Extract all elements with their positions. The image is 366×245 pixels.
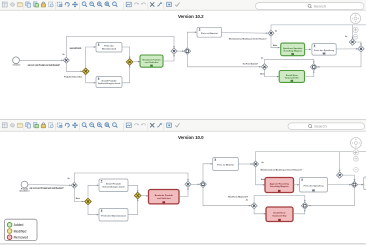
- zoom minus button (top): [353, 34, 358, 39]
- gateway G8 exclusive: [261, 64, 267, 70]
- gateway G5c modified yellow: [134, 192, 141, 199]
- wire TA to G5c: [128, 185, 138, 192]
- wire G2 up to task T1: [86, 47, 96, 68]
- wire rail drop to G6: [352, 25, 354, 39]
- gateway G1b exclusive: [71, 182, 77, 188]
- zoom minus button (bottom): [353, 156, 358, 161]
- svg-text:Vorbestellungen durch: Vorbestellungen durch: [98, 82, 121, 85]
- wire RA1 to G3b: [179, 188, 188, 197]
- wire G6b to G7b: [343, 175, 355, 181]
- wire G3 to G4: [177, 50, 184, 52]
- toolbar bottom panel: [0, 120, 366, 132]
- svg-text:Prüfe den: Prüfe den: [104, 45, 114, 48]
- wire G5 to green GA1: [133, 61, 140, 63]
- task GA1 added green: [140, 55, 163, 67]
- start event (bottom): [21, 181, 28, 188]
- wire T2 to G5: [122, 65, 130, 83]
- wire G4b down to G8b: [203, 188, 251, 206]
- wire PM to G5d: [238, 163, 252, 165]
- wire T4b to G7b: [328, 184, 352, 186]
- wire G1b up rail to G3b: [74, 173, 188, 182]
- svg-text:Hat Preis Material?: Hat Preis Material?: [243, 62, 259, 65]
- svg-text:Bearbeite Produkt: Bearbeite Produkt: [143, 59, 161, 62]
- task T4 Preis des Speicherg: [312, 44, 336, 56]
- wire G4b up to task PM: [203, 164, 213, 181]
- wire G2b up to taskA: [88, 185, 99, 198]
- svg-text:Produkt Vorbestellen: Produkt Vorbestellen: [64, 75, 83, 78]
- wire G8b down to red RA3: [254, 209, 266, 214]
- wire TB to G5c: [128, 199, 138, 215]
- svg-text:Version 10.0: Version 10.0: [178, 135, 204, 140]
- wire start to G1: [19, 59, 63, 61]
- svg-text:und Geld dort: und Geld dort: [157, 197, 171, 200]
- svg-text:Search: Search: [314, 124, 327, 129]
- legend added (green): [7, 223, 12, 228]
- wire rail drop to G6b: [339, 152, 341, 172]
- svg-text:Prüfe den Warenbestand: Prüfe den Warenbestand: [101, 214, 126, 217]
- svg-text:Vorschlag Magazin: Vorschlag Magazin: [283, 49, 302, 52]
- gateway G5d exclusive: [253, 161, 259, 167]
- search box top: [256, 3, 365, 10]
- task TA: [99, 179, 128, 192]
- svg-text:Erstell Neue: Erstell Neue: [286, 74, 299, 77]
- svg-text:Speichere Speicher: Speichere Speicher: [283, 47, 302, 50]
- task T3 Preis ist Material: [197, 27, 222, 37]
- svg-text:Vorbestellungen durch: Vorbestellungen durch: [102, 185, 125, 188]
- svg-text:Nein: Nein: [260, 74, 265, 76]
- svg-text:Nein: Nein: [76, 198, 81, 200]
- zoom plus button (bottom): [353, 150, 358, 155]
- svg-text:wie hoch sind Produkt und Geld: wie hoch sind Produkt und Geld Bestand?: [30, 187, 64, 190]
- wire G1 down to G2: [66, 63, 82, 71]
- svg-text:ausreichend: ausreichend: [70, 48, 82, 50]
- wire GA3 to G9: [305, 71, 314, 77]
- start event (top): [13, 57, 20, 64]
- svg-text:Warenbestand: Warenbestand: [102, 47, 117, 50]
- wire G4 down to G8: [187, 54, 261, 66]
- wire G8 down to green GA3: [265, 70, 280, 77]
- svg-text:Approve Recording: Approve Recording: [270, 182, 290, 185]
- task T2: [96, 77, 122, 88]
- gateway G1 exclusive: [63, 57, 69, 63]
- wire RA3 to G9b: [293, 209, 305, 214]
- wire G7b loop down-left to G9b: [308, 188, 354, 206]
- wire RA2 to T4b: [294, 184, 300, 186]
- wire G5d down to red RA2: [256, 167, 265, 185]
- svg-text:Removed: Removed: [14, 236, 29, 240]
- search box bottom: [288, 123, 365, 130]
- gateway G8b exclusive: [251, 203, 257, 209]
- legend removed (red): [7, 235, 12, 240]
- wire T4 to G7: [336, 48, 358, 50]
- gateway G2b modified yellow: [85, 198, 92, 205]
- wire GA1 to G3: [163, 54, 174, 61]
- task GA3 added green: [279, 71, 304, 83]
- task RA1 removed red: [149, 190, 180, 204]
- svg-text:Search: Search: [314, 4, 327, 9]
- pan navigation widget (top): [350, 13, 360, 23]
- svg-text:Preis ist Material: Preis ist Material: [217, 164, 234, 167]
- legend box: [5, 219, 38, 240]
- toolbar top panel: [0, 0, 366, 10]
- task sliver at right edge: [364, 177, 366, 190]
- gateway G5 modified yellow: [126, 59, 133, 66]
- svg-text:Erstell Produkt: Erstell Produkt: [102, 79, 117, 82]
- svg-text:Hat Preis Material?: Hat Preis Material?: [228, 195, 249, 198]
- wire G3b to G4b: [191, 183, 200, 185]
- svg-text:Bearbeite Produkt: Bearbeite Produkt: [155, 194, 173, 197]
- legend modified (yellow): [7, 229, 12, 234]
- pan navigation widget (bottom): [351, 138, 362, 149]
- svg-text:Vorschlag Magazin: Vorschlag Magazin: [270, 185, 289, 188]
- gateway G4 inclusive split: [184, 48, 191, 55]
- svg-text:Warenbestand und Bezahlung im: Warenbestand und Bezahlung im Gesten Fal…: [229, 38, 267, 41]
- wire G1 up rail to G3: [66, 36, 174, 57]
- wire G5c to red RA1: [141, 195, 148, 197]
- wire G7 loop down-left to G9: [317, 52, 361, 67]
- wire G5b up rail to right: [271, 25, 366, 30]
- bottom status strip: [0, 243, 366, 245]
- svg-text:Modified: Modified: [14, 229, 27, 233]
- svg-text:Produkt identifiziert: Produkt identifiziert: [13, 63, 21, 66]
- svg-text:Erstell Neue: Erstell Neue: [273, 212, 286, 215]
- wire T3 to G5b: [222, 32, 268, 35]
- wire GA2 to T4: [305, 48, 311, 50]
- svg-text:Vorbestell Sitz: Vorbestell Sitz: [272, 214, 286, 217]
- task TB: [99, 209, 128, 222]
- svg-text:Nein: Nein: [273, 45, 278, 47]
- task T1: [96, 43, 122, 53]
- svg-text:Preis des Speicherg: Preis des Speicherg: [314, 49, 335, 52]
- wire G4 up to task T3: [187, 32, 197, 48]
- gateway G6b exclusive: [337, 172, 343, 178]
- task RA2 removed red: [265, 178, 294, 193]
- wire G5d up rail to right: [256, 152, 366, 161]
- wire G8 up rail to G9: [265, 59, 314, 63]
- gateway G9b inclusive merge: [301, 202, 308, 209]
- wire G1b down to G2b: [74, 188, 84, 201]
- wire T1 to G5: [122, 47, 130, 59]
- wire G2 down to task T2: [86, 75, 96, 83]
- zoom reset button (bottom): [354, 168, 359, 173]
- svg-text:Preis des Speicherg: Preis des Speicherg: [304, 184, 325, 187]
- gateway G3b exclusive merge: [185, 181, 191, 187]
- wire G7b to edge task: [358, 184, 364, 186]
- wire start to G1b: [28, 184, 71, 187]
- gateway G7b inclusive: [351, 181, 357, 187]
- gateway G3 exclusive merge: [171, 48, 177, 54]
- task GA2 added green: [281, 43, 305, 56]
- svg-text:wie hoch sind Produkt und Geld: wie hoch sind Produkt und Geld Bestand?: [28, 64, 61, 67]
- svg-text:Vorbestell Sitz: Vorbestell Sitz: [285, 77, 299, 80]
- gateway G4b inclusive split: [200, 181, 207, 188]
- wire G8b up rail to G9b: [254, 196, 305, 203]
- gateway G9 inclusive merge: [310, 64, 317, 71]
- svg-text:und Geld dort: und Geld dort: [145, 61, 159, 64]
- wire G6 to G7: [356, 42, 361, 45]
- svg-text:Warenbestand und Bezahlung im: Warenbestand und Bezahlung im Gesten Fal…: [261, 169, 303, 172]
- svg-text:Added: Added: [14, 223, 24, 227]
- gateway G7 exclusive: [358, 46, 364, 52]
- wire G2b down to taskB: [88, 205, 99, 215]
- gateway G5b exclusive: [268, 30, 274, 36]
- svg-text:Version 10.2: Version 10.2: [178, 14, 204, 19]
- gateway G6 exclusive: [349, 39, 355, 45]
- task PM Preis ist Material: [213, 158, 239, 171]
- gateway G2 modified yellow: [82, 68, 89, 75]
- svg-text:identifiziert: identifiziert: [19, 189, 29, 192]
- zoom plus button (top): [353, 27, 358, 32]
- task RA3 removed red: [266, 207, 293, 222]
- task T4b Preis des Speicherg: [300, 178, 328, 193]
- toolbar 2 icons: [2, 123, 179, 131]
- toolbar 1 icons: [2, 2, 179, 10]
- wire G5b down to green GA2: [271, 36, 280, 48]
- svg-text:Erstell Produkt: Erstell Produkt: [106, 183, 121, 186]
- svg-text:Preis ist Material: Preis ist Material: [201, 32, 218, 35]
